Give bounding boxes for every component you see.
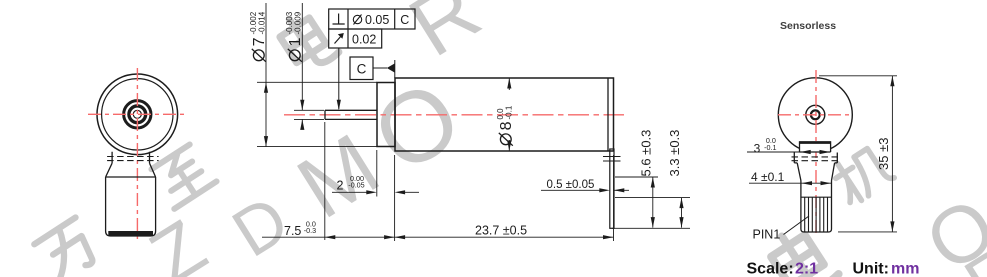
- inner circle: [102, 79, 173, 150]
- shaft: [325, 110, 377, 119]
- svg-text:Z: Z: [136, 204, 220, 277]
- datum leader and triangle: [373, 67, 387, 69]
- dim 35 +-3: [819, 76, 897, 232]
- svg-text:5.6 ±0.3: 5.6 ±0.3: [639, 130, 654, 177]
- svg-text:C: C: [357, 62, 367, 77]
- svg-text:C: C: [400, 13, 409, 27]
- svg-text:3: 3: [754, 141, 761, 155]
- lip hidden dashed: [792, 157, 841, 161]
- svg-text:-0.009: -0.009: [294, 11, 303, 34]
- svg-text:4 ±0.1: 4 ±0.1: [751, 170, 785, 184]
- FCF leader arrow down to shaft: [338, 48, 340, 109]
- rear FPC tail: [610, 149, 614, 228]
- svg-text:Scale:: Scale:: [747, 261, 794, 277]
- svg-text:-0.1: -0.1: [764, 143, 776, 152]
- rear end cap line: [607, 78, 609, 151]
- svg-text:8: 8: [498, 121, 515, 130]
- centerline (red): [284, 114, 624, 116]
- dia 1 label (rotated): [285, 11, 304, 61]
- left view centerlines (red): [88, 113, 186, 115]
- svg-text:-0.3: -0.3: [304, 226, 316, 235]
- motor body outline: [395, 78, 614, 151]
- bottle bold bottom edge: [108, 231, 153, 236]
- svg-text:23.7 ±0.5: 23.7 ±0.5: [475, 224, 527, 238]
- svg-text:7.5: 7.5: [284, 224, 301, 238]
- svg-text:3.3 ±0.3: 3.3 ±0.3: [667, 130, 682, 177]
- hidden dashed lines: [107, 157, 159, 161]
- hub ring: [806, 105, 825, 124]
- tab sides: [112, 152, 149, 164]
- svg-text:0.02: 0.02: [352, 33, 376, 47]
- bottle body: [106, 177, 156, 236]
- dim 0.5 +-0.05: [541, 189, 629, 191]
- right view centerlines (red): [778, 114, 853, 116]
- hub ring inner: [129, 106, 146, 123]
- outer circle: [778, 78, 852, 152]
- svg-text:R: R: [394, 0, 496, 75]
- svg-text:0.05: 0.05: [365, 13, 389, 27]
- front bushing: [377, 83, 395, 147]
- svg-text:0.5 ±0.05: 0.5 ±0.05: [547, 179, 595, 191]
- svg-text:Unit:: Unit:: [853, 261, 889, 277]
- outer circle: [97, 74, 178, 155]
- dim 3 0/-0.1: [747, 151, 800, 153]
- char partial top: [275, 6, 340, 75]
- char dian right: [765, 222, 839, 277]
- dim 3.3 +-0.3: [615, 197, 690, 199]
- lip: [794, 153, 837, 163]
- svg-text:-0.014: -0.014: [258, 11, 267, 34]
- dia 1 dimension: [294, 3, 324, 128]
- dim 4 +-0.1: [749, 182, 831, 184]
- svg-text:7: 7: [251, 37, 268, 46]
- dim 7.5 0/-0.3 and 23.7: [262, 122, 614, 241]
- dim 2 0/-0.05: [332, 150, 419, 241]
- Scale and Unit note: [747, 261, 920, 277]
- bottle shoulder line: [106, 176, 156, 178]
- feature control frame: runout 0.02: [329, 29, 382, 48]
- ribbon body: [801, 181, 832, 233]
- neck slants: [797, 163, 834, 181]
- char ji right: [829, 142, 895, 206]
- svg-text:1: 1: [287, 37, 304, 46]
- break marks on tail: [603, 157, 621, 162]
- collar with bold top (white fill occludes circle): [800, 143, 831, 153]
- hub bold circle: [811, 110, 820, 119]
- char wan: [33, 217, 101, 277]
- hatch top line: [801, 196, 832, 198]
- svg-text:PIN1: PIN1: [753, 228, 781, 242]
- dia 7 label (rotated): [249, 11, 268, 61]
- dia 8 dimension: [508, 78, 510, 151]
- dia 7 dimension: [257, 3, 377, 147]
- svg-text:-0.1: -0.1: [505, 105, 514, 119]
- char zhi: [149, 143, 216, 209]
- datum C box: [350, 57, 373, 80]
- dia 8 label (rotated): [496, 105, 515, 146]
- svg-text:Sensorless: Sensorless: [780, 20, 836, 32]
- svg-text:2: 2: [337, 179, 344, 193]
- feature control frame: perpendicularity 0.05 C: [329, 9, 415, 29]
- bottom shared extension line: [612, 227, 690, 229]
- svg-text:35 ±3: 35 ±3: [876, 138, 891, 170]
- svg-text:2:1: 2:1: [795, 261, 818, 277]
- hub shaft circle: [133, 110, 141, 118]
- svg-text:-0.05: -0.05: [348, 181, 364, 190]
- dim 5.6 +-0.3: [615, 176, 658, 178]
- svg-text:mm: mm: [891, 261, 919, 277]
- bottle shoulders: [106, 163, 156, 177]
- pin hatch lines: [805, 197, 828, 232]
- hub ring outer: [124, 101, 151, 128]
